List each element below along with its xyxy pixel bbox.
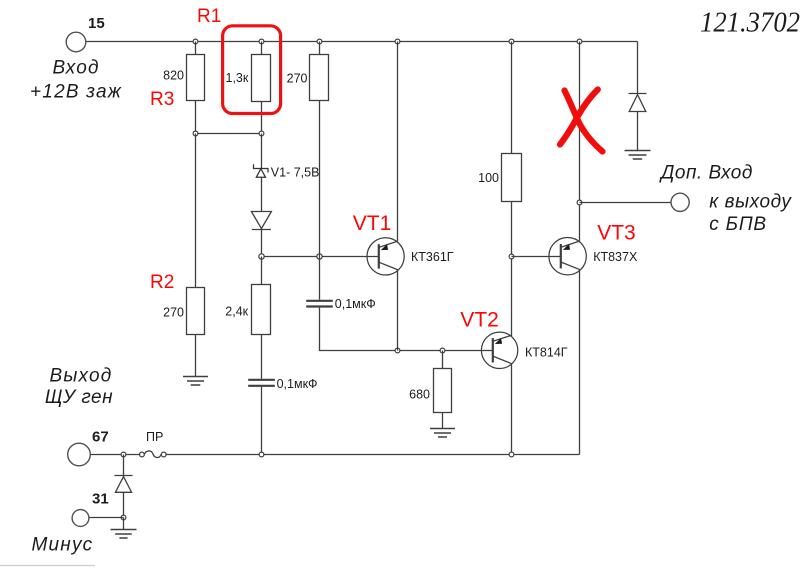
transistor VT2 КТ814Г bbox=[481, 332, 517, 368]
wire diode to node bbox=[261, 230, 263, 257]
svg-text:270: 270 bbox=[287, 72, 308, 86]
zener diode V1 bbox=[254, 164, 269, 177]
node top rail / VT1 emitter column bbox=[395, 39, 400, 44]
node at VT1 collector junction bbox=[395, 348, 400, 353]
ground under 680 bbox=[430, 428, 455, 430]
svg-text:0,1мкФ: 0,1мкФ bbox=[335, 297, 376, 311]
wire to terminal Доп. Вход bbox=[580, 202, 671, 204]
node at 261,256 bbox=[259, 254, 264, 259]
svg-text:Вход: Вход bbox=[53, 58, 100, 79]
svg-text:ЩУ ген: ЩУ ген bbox=[45, 387, 113, 408]
wire VT1 collector down bbox=[397, 270, 399, 351]
wire zener to diode VD2 bbox=[261, 177, 263, 211]
svg-text:15: 15 bbox=[88, 15, 105, 32]
wire VT3 collector down to bottom rail corner bbox=[579, 270, 581, 455]
node at 680 junction bbox=[440, 348, 445, 353]
node top rail / VT3 emitter column bbox=[577, 39, 582, 44]
node bottom rail / VD1 tap bbox=[121, 452, 126, 457]
terminal Доп. Вход bbox=[671, 193, 689, 211]
svg-text:0,1мкФ: 0,1мкФ bbox=[277, 377, 318, 391]
svg-text:с БПВ: с БПВ bbox=[709, 214, 767, 235]
node at 319,256 bbox=[317, 254, 322, 259]
red annotation box around R1 bbox=[223, 26, 281, 114]
svg-text:680: 680 bbox=[409, 388, 430, 402]
svg-text:820: 820 bbox=[163, 69, 184, 83]
node top rail / R1 bbox=[259, 39, 264, 44]
diode VD2 (cathode down) bbox=[251, 212, 271, 230]
resistor 100 bbox=[511, 42, 513, 154]
ground under 31 node bbox=[111, 529, 137, 531]
ground under right diode bbox=[625, 150, 651, 152]
svg-text:Выход: Выход bbox=[50, 366, 113, 387]
transistor VT1 КТ361Г bbox=[367, 238, 404, 275]
svg-text:КТ837Х: КТ837Х bbox=[593, 250, 638, 264]
capacitor 0,1мкФ (upper) bbox=[306, 301, 333, 307]
wire cap to bottom rail bbox=[261, 387, 263, 455]
svg-text:+12В заж: +12В заж bbox=[30, 82, 122, 103]
resistor R2 270 bbox=[187, 288, 205, 335]
wire node down to ground bbox=[123, 518, 125, 530]
diode VD at top right (cathode up) bbox=[629, 94, 647, 151]
resistor 680 bbox=[442, 351, 444, 369]
resistor R3 820 bbox=[195, 42, 197, 55]
wire top +12V rail bbox=[86, 41, 638, 43]
svg-text:КТ361Г: КТ361Г bbox=[411, 250, 454, 264]
wire R1 node down to zener bbox=[261, 134, 263, 169]
wire VT3 emitter column (crossed by X) bbox=[579, 42, 581, 242]
wire node down to 2,4к bbox=[261, 257, 263, 285]
svg-text:Доп. Вход: Доп. Вход bbox=[659, 162, 753, 183]
svg-text:R1: R1 bbox=[197, 6, 221, 27]
resistor 270 (top) bbox=[319, 42, 321, 55]
node VT3 base junction bbox=[509, 254, 514, 259]
resistor R1 1,3к bbox=[261, 42, 263, 55]
svg-text:1,3к: 1,3к bbox=[226, 71, 249, 85]
wire node to VT3 base bbox=[512, 256, 562, 258]
transistor VT3 КТ837Х bbox=[549, 238, 586, 275]
node top rail / 270 bbox=[317, 39, 322, 44]
svg-text:R3: R3 bbox=[150, 89, 174, 110]
wire node down to upper cap bbox=[319, 257, 321, 300]
svg-text:100: 100 bbox=[478, 171, 499, 185]
node bottom rail / VT2 collector bbox=[509, 452, 514, 457]
svg-text:к выходу: к выходу bbox=[709, 192, 792, 213]
node at Доп. Вход tap bbox=[577, 200, 582, 205]
ground under R2 bbox=[183, 376, 208, 378]
node R1 bottom bbox=[259, 131, 264, 136]
terminal 67 bbox=[68, 443, 91, 466]
wire terminal 31 to node bbox=[89, 517, 124, 519]
terminal 15 bbox=[66, 32, 86, 52]
bottom rail: terminal 67 to fuse bbox=[90, 454, 139, 456]
wire cap down then right to VT2 base bbox=[320, 308, 494, 351]
svg-text:КТ814Г: КТ814Г bbox=[525, 345, 568, 359]
wire joining R3 and R1 bottoms bbox=[196, 133, 262, 135]
wire top rail corner down to diode VD bbox=[637, 42, 639, 94]
red X annotation bbox=[560, 90, 603, 152]
bottom rail: fuse to VT3 collector corner bbox=[166, 454, 580, 456]
wire down to R2 bbox=[195, 134, 197, 288]
svg-text:VT1: VT1 bbox=[353, 212, 392, 235]
svg-text:VT2: VT2 bbox=[460, 308, 499, 331]
node at 31 tap bbox=[121, 515, 126, 520]
node R3 bottom bbox=[193, 131, 198, 136]
wire VT2 collector down to bottom rail bbox=[511, 365, 513, 455]
node top rail / R3 bbox=[193, 39, 198, 44]
svg-text:2,4к: 2,4к bbox=[225, 305, 248, 319]
svg-text:ПР: ПР bbox=[146, 430, 163, 444]
svg-text:VT3: VT3 bbox=[597, 221, 636, 244]
svg-text:31: 31 bbox=[92, 491, 109, 508]
wire mid horizontal net to VT1 base bbox=[262, 256, 380, 258]
svg-text:R2: R2 bbox=[150, 272, 174, 293]
node top rail / 100 column bbox=[509, 39, 514, 44]
terminal 31 bbox=[72, 510, 89, 527]
node bottom rail / lower cap column bbox=[259, 452, 264, 457]
svg-text:121.3702: 121.3702 bbox=[700, 8, 800, 39]
svg-text:V1- 7,5В: V1- 7,5В bbox=[271, 166, 320, 180]
faint bottom-left edge line bbox=[0, 565, 95, 567]
svg-text:270: 270 bbox=[163, 306, 184, 320]
resistor 2,4к bbox=[252, 285, 271, 335]
wire node down to diode VD1 bbox=[123, 455, 125, 476]
svg-text:67: 67 bbox=[92, 429, 109, 446]
wire VT1 emitter column bbox=[397, 42, 399, 242]
svg-text:Минус: Минус bbox=[32, 535, 94, 556]
diode VD1 (cathode up) bbox=[115, 476, 133, 518]
capacitor 0,1мкФ (lower) bbox=[248, 380, 275, 386]
fuse ПР bbox=[140, 451, 167, 458]
